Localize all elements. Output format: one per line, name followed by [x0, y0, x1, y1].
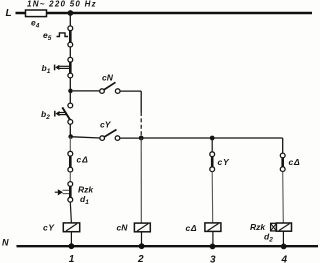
contact cDelta (NC) rung 4 [280, 153, 300, 171]
svg-text:N: N [2, 238, 9, 248]
coil cN (rung 2) [117, 223, 151, 233]
pushbutton b2 (NO) [41, 103, 73, 124]
node junction cN/cY bus [139, 136, 144, 141]
wire [69, 172, 71, 182]
fuse e4 [26, 10, 47, 30]
node junction rung3/N [210, 244, 216, 250]
wire rung 4 drop corner [282, 138, 284, 153]
svg-text:cΔ: cΔ [186, 223, 198, 233]
wire [69, 47, 71, 58]
svg-text:1: 1 [69, 254, 75, 263]
node junction rung4/N [281, 244, 287, 250]
contact cN (NO, seal-in) [73, 73, 141, 94]
svg-text:cN: cN [102, 73, 114, 83]
wire [211, 172, 214, 223]
wire N rail [17, 245, 319, 247]
wire rung 3 drop [211, 138, 213, 152]
svg-text:2: 2 [137, 254, 144, 263]
svg-text:1N~ 220 50 Hz: 1N~ 220 50 Hz [27, 0, 97, 9]
node junction rung1/N [69, 243, 75, 249]
svg-text:4: 4 [281, 255, 288, 263]
svg-text:cN: cN [117, 223, 129, 233]
node junction bus/rung3 [210, 136, 215, 141]
wire [69, 91, 71, 103]
coil Rzk d2 (rung 4, thermal relay) [250, 222, 292, 244]
svg-text:L: L [6, 8, 12, 19]
svg-text:cY: cY [43, 223, 55, 233]
wire cN branch drop [140, 91, 142, 112]
wire [69, 78, 71, 91]
svg-text:cΔ: cΔ [289, 157, 301, 167]
wire [70, 232, 72, 247]
svg-text:cΔ: cΔ [77, 155, 89, 165]
svg-text:3: 3 [210, 255, 216, 263]
wire [69, 137, 71, 152]
node junction rung2/N [139, 243, 145, 249]
contact Rzk d1 (NC, thermal) [55, 182, 95, 206]
wire [70, 202, 71, 223]
wire [141, 232, 143, 246]
wire L rail [16, 12, 313, 14]
svg-text:cY: cY [218, 157, 231, 167]
svg-text:cY: cY [100, 120, 112, 130]
pushbutton b1 (NC) [42, 57, 73, 78]
node junction b1/cN [68, 89, 73, 94]
wire [282, 231, 284, 246]
wire bus to right [141, 137, 283, 139]
wire [69, 124, 71, 136]
node junction b2/cY [68, 134, 73, 139]
wire [282, 172, 285, 224]
svg-text:Rzk: Rzk [250, 222, 266, 232]
coil cDelta (rung 3) [186, 223, 221, 233]
fuse e5 [43, 26, 73, 47]
contact cY (NO, bypass of b2) [73, 120, 141, 141]
contact cY (NC) rung 3 [210, 152, 230, 172]
wire main drop from L [69, 13, 71, 26]
wire rung 2 drop [140, 138, 142, 223]
contact cDelta (NC) on main line [68, 151, 89, 172]
wire [212, 231, 214, 246]
junction on L rail [68, 10, 74, 16]
coil cY (rung 1) [43, 223, 80, 233]
